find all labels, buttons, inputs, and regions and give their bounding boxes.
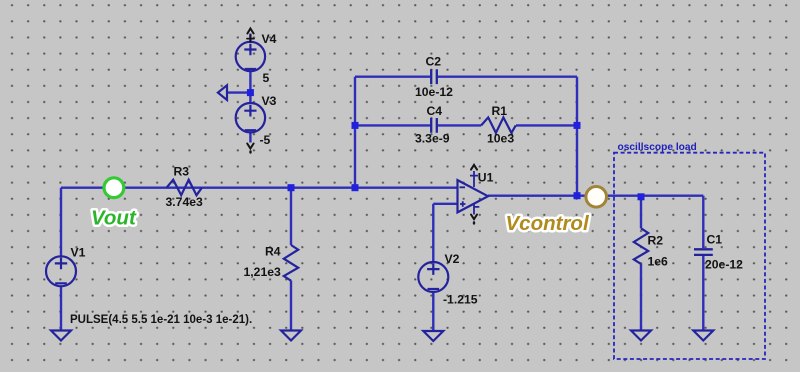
svg-text:C1: C1: [707, 233, 723, 247]
wire R2 bottom to ground: [640, 264, 642, 331]
wire R2 top: [640, 197, 642, 229]
wire C1 top: [702, 196, 704, 248]
wire V3 bottom lead: [249, 132, 251, 142]
wire feedback left vertical: [354, 77, 356, 188]
capacitor C2: [431, 69, 437, 84]
svg-text:3.74e3: 3.74e3: [166, 195, 203, 209]
svg-text:V2: V2: [445, 252, 460, 266]
svg-text:3.3e-9: 3.3e-9: [415, 132, 450, 146]
voltage source V4: [236, 42, 265, 71]
wire V4 to V3 vertical: [249, 71, 251, 103]
svg-text:Vcontrol: Vcontrol: [506, 212, 590, 235]
voltage source V2: [418, 262, 448, 292]
wire R4 bottom to ground: [290, 281, 292, 331]
wire main horizontal (Vout net): [61, 186, 458, 188]
ground under R4: [281, 331, 301, 341]
svg-text:U1: U1: [478, 171, 494, 185]
junction supply midpoint: [247, 89, 254, 96]
svg-text:V3: V3: [262, 94, 277, 108]
svg-text:-1.215: -1.215: [443, 293, 478, 307]
ground left arrow at supply midpoint: [218, 85, 227, 100]
voltage source V1: [46, 256, 76, 286]
junction output node: [574, 192, 581, 199]
ground under V1: [51, 331, 71, 341]
voltage source V3: [236, 103, 265, 132]
junction feedback left on main wire: [352, 184, 359, 191]
svg-text:V4: V4: [262, 32, 277, 46]
svg-text:10e3: 10e3: [487, 132, 514, 146]
capacitor C4: [431, 118, 437, 133]
svg-text:R4: R4: [265, 245, 281, 259]
junction feedback right middle branch: [574, 122, 581, 129]
svg-text:C4: C4: [427, 104, 443, 118]
junction R2 top: [638, 193, 645, 200]
svg-text:oscillscope load: oscillscope load: [618, 142, 697, 153]
wire feedback right vertical: [576, 77, 578, 196]
svg-text:10e-12: 10e-12: [415, 85, 453, 99]
wire V4 top lead: [249, 34, 251, 43]
svg-text:R3: R3: [174, 165, 190, 179]
svg-text:5: 5: [263, 71, 270, 85]
resistor R1: [481, 117, 516, 133]
wire middle branch C4 to R1: [438, 124, 481, 126]
junction R4 top: [288, 184, 295, 191]
wire middle branch left of C4: [355, 124, 430, 126]
node Vout circle: [104, 178, 124, 198]
ground under V2: [423, 331, 443, 341]
svg-text:V1: V1: [71, 246, 86, 260]
wire ground arm left of supply junction: [227, 91, 250, 93]
resistor R2: [634, 228, 648, 264]
svg-text:-5: -5: [260, 133, 271, 147]
pin marker above V4: [247, 29, 253, 34]
wire output (Vcontrol net): [488, 194, 703, 196]
wire V2 bottom to ground: [432, 292, 434, 331]
pin marker above op-amp V+: [471, 165, 477, 170]
pin marker below V3: [247, 144, 253, 149]
op-amp U1: [458, 180, 489, 212]
oscilloscope load box: [614, 153, 765, 359]
capacitor C1: [694, 249, 713, 255]
svg-text:PULSE(4.5 5.5 1e-21 10e-3 1e-2: PULSE(4.5 5.5 1e-21 10e-3 1e-21).: [70, 314, 252, 326]
resistor R3: [167, 180, 202, 196]
wire V1 top: [60, 188, 62, 257]
wire V2 top: [432, 204, 434, 262]
svg-text:20e-12: 20e-12: [705, 258, 743, 272]
pin marker below op-amp V-: [471, 215, 477, 220]
wire middle branch right of R1: [516, 124, 577, 126]
resistor R4: [284, 245, 298, 281]
svg-text:Vout: Vout: [91, 207, 137, 230]
svg-text:1e6: 1e6: [648, 255, 669, 269]
svg-text:C2: C2: [426, 55, 442, 69]
ground under R2: [631, 331, 651, 341]
node Vcontrol circle: [586, 187, 607, 208]
svg-text:R1: R1: [492, 104, 508, 118]
wire top branch left of C2: [355, 75, 430, 77]
wire R4 top: [290, 188, 292, 245]
wire top branch right of C2: [438, 75, 577, 77]
junction feedback left middle branch: [352, 122, 359, 129]
wire V1 bottom to ground: [60, 287, 62, 331]
svg-text:R2: R2: [648, 234, 664, 248]
wire C1 bottom to ground: [702, 256, 704, 331]
wire op-amp plus input horizontal: [433, 203, 457, 205]
ground under C1: [693, 331, 713, 341]
svg-text:1,21e3: 1,21e3: [244, 265, 281, 279]
